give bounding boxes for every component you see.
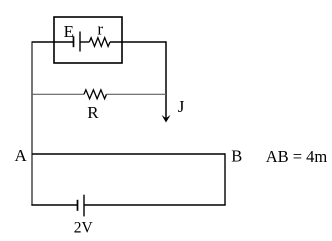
wire: middle horizontal with resistor R, left part	[32, 93, 84, 95]
svg-text:2V: 2V	[74, 219, 94, 236]
battery 2V long plate	[83, 195, 85, 217]
svg-text:AB = 4m: AB = 4m	[266, 147, 328, 166]
wire: battery to resistor r	[80, 41, 89, 43]
wire: middle horizontal, right part	[107, 93, 167, 95]
resistor R zigzag	[84, 90, 107, 99]
svg-text:E: E	[64, 22, 74, 41]
wire: left vertical branch x=32	[31, 41, 33, 205]
battery 2V short plate	[77, 200, 79, 211]
svg-text:r: r	[97, 19, 103, 38]
wire: right vertical from B down	[224, 153, 226, 205]
arrowhead of J	[162, 115, 171, 123]
wire: resistor r to right corner	[110, 41, 166, 43]
wire: top left horizontal from corner into box to battery	[32, 41, 74, 43]
resistor r zigzag	[89, 38, 110, 47]
potentiometer wire A-B	[32, 153, 225, 155]
svg-text:A: A	[15, 146, 28, 165]
svg-text:J: J	[178, 97, 185, 116]
wire: bottom left segment	[31, 204, 77, 206]
svg-text:R: R	[87, 103, 99, 122]
wire: bottom right segment	[84, 204, 226, 206]
battery E short plate	[73, 36, 75, 47]
battery E long plate	[79, 32, 81, 52]
enclosure box around E and r	[54, 17, 122, 63]
wire: jockey vertical line with current arrow J	[165, 41, 167, 121]
svg-text:B: B	[231, 147, 242, 166]
